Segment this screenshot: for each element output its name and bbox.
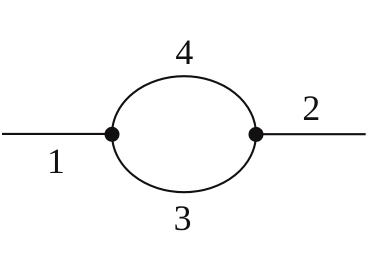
svg-text:4: 4 <box>175 32 193 72</box>
svg-text:1: 1 <box>47 141 65 181</box>
svg-text:3: 3 <box>174 198 192 238</box>
svg-text:2: 2 <box>302 88 320 128</box>
